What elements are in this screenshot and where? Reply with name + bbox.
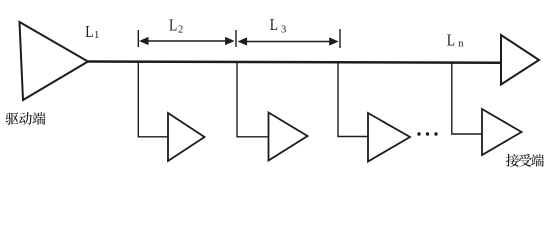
svg-text:2: 2 <box>178 25 183 36</box>
svg-text:n: n <box>458 38 464 49</box>
svg-text:L: L <box>85 23 93 42</box>
svg-text:L: L <box>270 16 278 35</box>
svg-text:L: L <box>169 16 177 35</box>
svg-text:L: L <box>447 31 455 50</box>
svg-text:1: 1 <box>94 30 99 41</box>
svg-text:3: 3 <box>281 25 286 36</box>
